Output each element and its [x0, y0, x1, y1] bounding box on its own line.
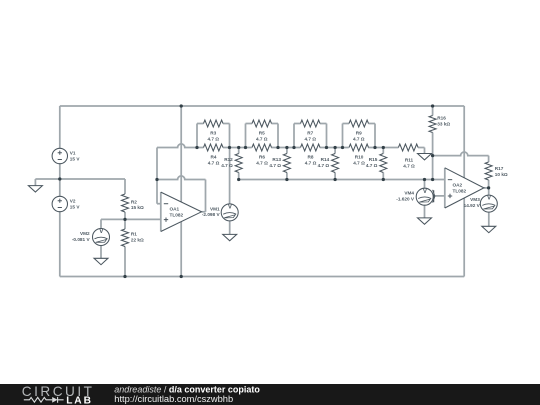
svg-text:R2: R2 — [131, 200, 137, 205]
svg-text:R16: R16 — [437, 115, 446, 120]
wire R1 to bottom rail — [124, 247, 126, 277]
svg-text:R6: R6 — [259, 155, 265, 160]
label R17 — [495, 166, 508, 177]
wire OA2 plus input — [425, 195, 445, 197]
svg-text:14.92 V: 14.92 V — [464, 203, 481, 208]
node R16 feedback dot — [431, 154, 434, 157]
node R15 bottom dot — [382, 178, 385, 181]
wire R14 stubs — [334, 148, 336, 180]
label VM4 — [396, 191, 415, 202]
svg-text:OA2: OA2 — [453, 182, 463, 187]
svg-text:4.7 Ω: 4.7 Ω — [207, 136, 219, 141]
wire VM1 ground stub — [229, 221, 231, 235]
label R10 — [353, 155, 365, 166]
ground under VM2 — [94, 258, 108, 264]
svg-text:4.7 Ω: 4.7 Ω — [304, 136, 316, 141]
svg-text:4.7 Ω: 4.7 Ω — [269, 163, 281, 168]
label R3 — [207, 131, 219, 142]
wire node to VM2 — [101, 219, 125, 228]
node R9 left dot — [341, 146, 344, 149]
wire main line seg R8-R10 — [320, 147, 349, 149]
svg-text:R12: R12 — [224, 157, 233, 162]
svg-text:R8: R8 — [308, 155, 314, 160]
node R14 top dot — [333, 146, 336, 149]
resistor R2 — [122, 194, 129, 212]
node R12 top dot — [237, 146, 240, 149]
wire VM3 ground stub — [488, 212, 490, 226]
svg-text:R11: R11 — [405, 157, 414, 162]
ground under VM3 — [482, 226, 496, 232]
wire top +15V rail — [60, 105, 464, 107]
svg-text:TL082: TL082 — [170, 212, 184, 217]
svg-text:-2.098 V: -2.098 V — [202, 212, 221, 217]
resistor R15 — [380, 154, 387, 173]
resistor R13 — [283, 154, 290, 173]
svg-text:VM2: VM2 — [80, 231, 90, 236]
node OA1 supply top dot — [180, 104, 183, 107]
op-amp OA1 TL082 — [161, 192, 202, 231]
svg-text:15 V: 15 V — [70, 156, 81, 161]
wire main line seg R10-R11 — [368, 147, 398, 149]
wire ground stub left — [34, 179, 36, 186]
svg-text:22 kΩ: 22 kΩ — [131, 237, 144, 242]
wire R16 bottom — [432, 133, 434, 180]
wire R16 top stub — [432, 106, 434, 116]
svg-text:R10: R10 — [355, 155, 364, 160]
ground ladder termination — [418, 154, 432, 160]
resistor R11 — [398, 144, 418, 151]
label R11 — [403, 157, 415, 168]
ground under VM1 — [223, 234, 237, 240]
svg-text:R13: R13 — [272, 157, 281, 162]
node R9 right dot — [373, 146, 376, 149]
svg-text:R15: R15 — [369, 157, 378, 162]
node R5 right dot — [276, 146, 279, 149]
svg-text:-0.081 V: -0.081 V — [72, 237, 91, 242]
wire OA2 output stub — [484, 187, 489, 189]
wire VM1 to ladder node — [229, 148, 231, 205]
label R15 — [366, 157, 378, 168]
voltmeter VM1 — [221, 204, 238, 221]
svg-text:V2: V2 — [70, 198, 76, 203]
label V1 — [70, 150, 81, 161]
node R7 left dot — [292, 146, 295, 149]
wire OA1 feedback top — [157, 176, 206, 180]
resistor R10 — [349, 144, 369, 151]
svg-text:R1: R1 — [131, 231, 137, 236]
wire V1 to V2 junction — [59, 164, 61, 197]
wire OA1 feedback right — [205, 180, 207, 212]
svg-text:-1.620 V: -1.620 V — [396, 197, 415, 202]
svg-text:VM3: VM3 — [470, 197, 480, 202]
ground split supply — [28, 186, 42, 192]
svg-text:andreadiste / d/a converter co: andreadiste / d/a converter copiato — [114, 384, 260, 394]
node R16 rail dot — [431, 104, 434, 107]
svg-text:33 kΩ: 33 kΩ — [437, 122, 450, 127]
label R7 — [304, 131, 316, 142]
wire VM3 top stub — [488, 188, 490, 195]
label VM1 — [202, 206, 221, 217]
svg-text:R17: R17 — [495, 166, 504, 171]
CircuitLab logo text LAB — [66, 396, 93, 405]
resistor R14 — [332, 154, 339, 173]
label R14 — [318, 157, 330, 168]
wire main line seg R4-R6 — [223, 147, 252, 149]
node R7 right dot — [325, 146, 328, 149]
node R2-R1-VM2 dot — [123, 218, 126, 221]
node OA1 supply bottom dot — [180, 275, 183, 278]
resistor R6 — [252, 144, 272, 151]
label R5 — [256, 131, 268, 142]
svg-text:VM1: VM1 — [210, 206, 220, 211]
wire OA1 output stub — [202, 211, 206, 213]
node R15 top dot — [382, 146, 385, 149]
node R5 left dot — [244, 146, 247, 149]
label R9 — [353, 131, 365, 142]
voltmeter VM3 — [480, 195, 497, 212]
svg-text:4.7 Ω: 4.7 Ω — [305, 161, 317, 166]
node VM4 rail dot — [423, 178, 426, 181]
wire OA2 V- supply — [463, 198, 465, 277]
resistor R12 — [235, 154, 242, 173]
label VM3 — [464, 197, 481, 208]
voltmeter VM4 — [416, 188, 433, 205]
op-amp OA2 TL082 — [445, 168, 484, 208]
wire V1 top to rail — [59, 106, 61, 148]
wire ladder summing rail — [239, 179, 445, 181]
wire R5 bypass loop — [246, 124, 279, 148]
ground under VM4 — [418, 218, 432, 224]
svg-text:VM4: VM4 — [404, 191, 414, 196]
svg-text:4.7 Ω: 4.7 Ω — [366, 163, 378, 168]
node R3 right dot — [228, 146, 231, 149]
wire R7 bypass loop — [294, 124, 327, 148]
wire R3 bypass loop — [197, 124, 230, 148]
svg-text:15 kΩ: 15 kΩ — [131, 205, 144, 210]
label R16 — [437, 115, 450, 126]
wire main line seg R6-R8 — [271, 147, 300, 149]
wire junction to ground — [35, 178, 59, 180]
CircuitLab logo text CIRCUIT — [22, 384, 95, 399]
wire to OA1 minus input — [157, 203, 161, 205]
label R2 — [131, 200, 144, 210]
svg-text:10 kΩ: 10 kΩ — [495, 172, 508, 177]
label R1 — [131, 231, 144, 242]
node R12 bottom dot — [237, 178, 240, 181]
node OA1 feedback dot — [155, 178, 158, 181]
svg-text:4.7 Ω: 4.7 Ω — [353, 161, 365, 166]
label VM2 — [72, 231, 91, 242]
voltage source V1 — [52, 148, 67, 163]
resistor R3 — [204, 120, 224, 127]
wire R2 to node — [124, 212, 126, 219]
wire ladder input — [157, 144, 204, 148]
svg-text:4.7 Ω: 4.7 Ω — [403, 163, 415, 168]
svg-text:OA1: OA1 — [170, 206, 180, 211]
node R16 rail bottom dot — [431, 178, 434, 181]
footer url line — [114, 394, 233, 404]
wire OA1 V+ supply — [180, 106, 182, 202]
node V1-V2 junction dot — [58, 177, 61, 180]
node R13 bottom dot — [285, 178, 288, 181]
svg-text:4.7 Ω: 4.7 Ω — [256, 161, 268, 166]
footer title line — [114, 384, 260, 394]
wire OA1 inverting node vertical — [156, 148, 158, 204]
wire R15 stubs — [382, 148, 384, 180]
footer bar — [0, 384, 540, 405]
svg-text:V1: V1 — [70, 150, 76, 155]
node OA2 output dot — [487, 186, 490, 189]
wire OA1 V- supply — [180, 222, 182, 277]
wire junction to R2 top — [60, 178, 125, 180]
wire node to R1 — [124, 219, 126, 229]
voltmeter VM2 — [93, 228, 110, 245]
svg-text:TL082: TL082 — [453, 189, 467, 194]
svg-text:R5: R5 — [259, 131, 265, 136]
resistor R1 — [122, 229, 129, 247]
needle arrow VM4 — [433, 190, 435, 203]
wire bottom -15V rail — [60, 276, 464, 278]
resistor R5 — [252, 120, 272, 127]
label R6 — [256, 155, 268, 166]
wire V2 bottom to rail — [59, 212, 61, 277]
svg-text:LAB: LAB — [66, 396, 93, 405]
voltage source V2 — [52, 196, 67, 211]
wire R17 to output node — [488, 180, 490, 188]
wire R17 top stub — [488, 156, 490, 162]
svg-text:R7: R7 — [307, 131, 313, 136]
node R1 bottom rail dot — [123, 275, 126, 278]
svg-text:15 V: 15 V — [70, 204, 81, 209]
svg-text:4.7 Ω: 4.7 Ω — [256, 136, 268, 141]
node R3 left dot — [195, 146, 198, 149]
wire OA2 V+ supply — [463, 106, 465, 178]
wire R12 stubs — [238, 148, 240, 180]
wire VM4 vertical — [424, 180, 426, 218]
svg-text:4.7 Ω: 4.7 Ω — [221, 163, 233, 168]
wire R2 top stub — [124, 179, 126, 194]
svg-text:R9: R9 — [356, 131, 362, 136]
wire R11 to ground — [418, 148, 424, 154]
CircuitLab logo doodle resistor+diode — [24, 397, 64, 403]
resistor R8 — [301, 144, 321, 151]
label V2 — [70, 198, 81, 209]
svg-text:R3: R3 — [210, 131, 216, 136]
resistor R17 — [485, 162, 492, 180]
node R14 bottom dot — [333, 178, 336, 181]
wire OA2 feedback — [433, 152, 489, 156]
node R13 top dot — [285, 146, 288, 149]
resistor R9 — [349, 120, 369, 127]
svg-text:http://circuitlab.com/cszwbhb: http://circuitlab.com/cszwbhb — [114, 394, 233, 404]
wire to OA1 plus input — [125, 218, 161, 220]
label R12 — [221, 157, 233, 168]
svg-text:4.7 Ω: 4.7 Ω — [208, 161, 220, 166]
resistor R16 — [429, 116, 436, 133]
svg-text:4.7 Ω: 4.7 Ω — [353, 136, 365, 141]
label R8 — [305, 155, 317, 166]
svg-text:R4: R4 — [211, 155, 217, 160]
label R4 — [208, 155, 220, 166]
label R13 — [269, 157, 281, 168]
resistor R4 — [204, 144, 224, 151]
svg-text:R14: R14 — [321, 157, 330, 162]
wire R9 bypass loop — [343, 124, 376, 148]
svg-text:4.7 Ω: 4.7 Ω — [318, 163, 330, 168]
wire R13 stubs — [286, 148, 288, 180]
wire VM2 ground stub — [100, 246, 102, 259]
resistor R7 — [301, 120, 321, 127]
